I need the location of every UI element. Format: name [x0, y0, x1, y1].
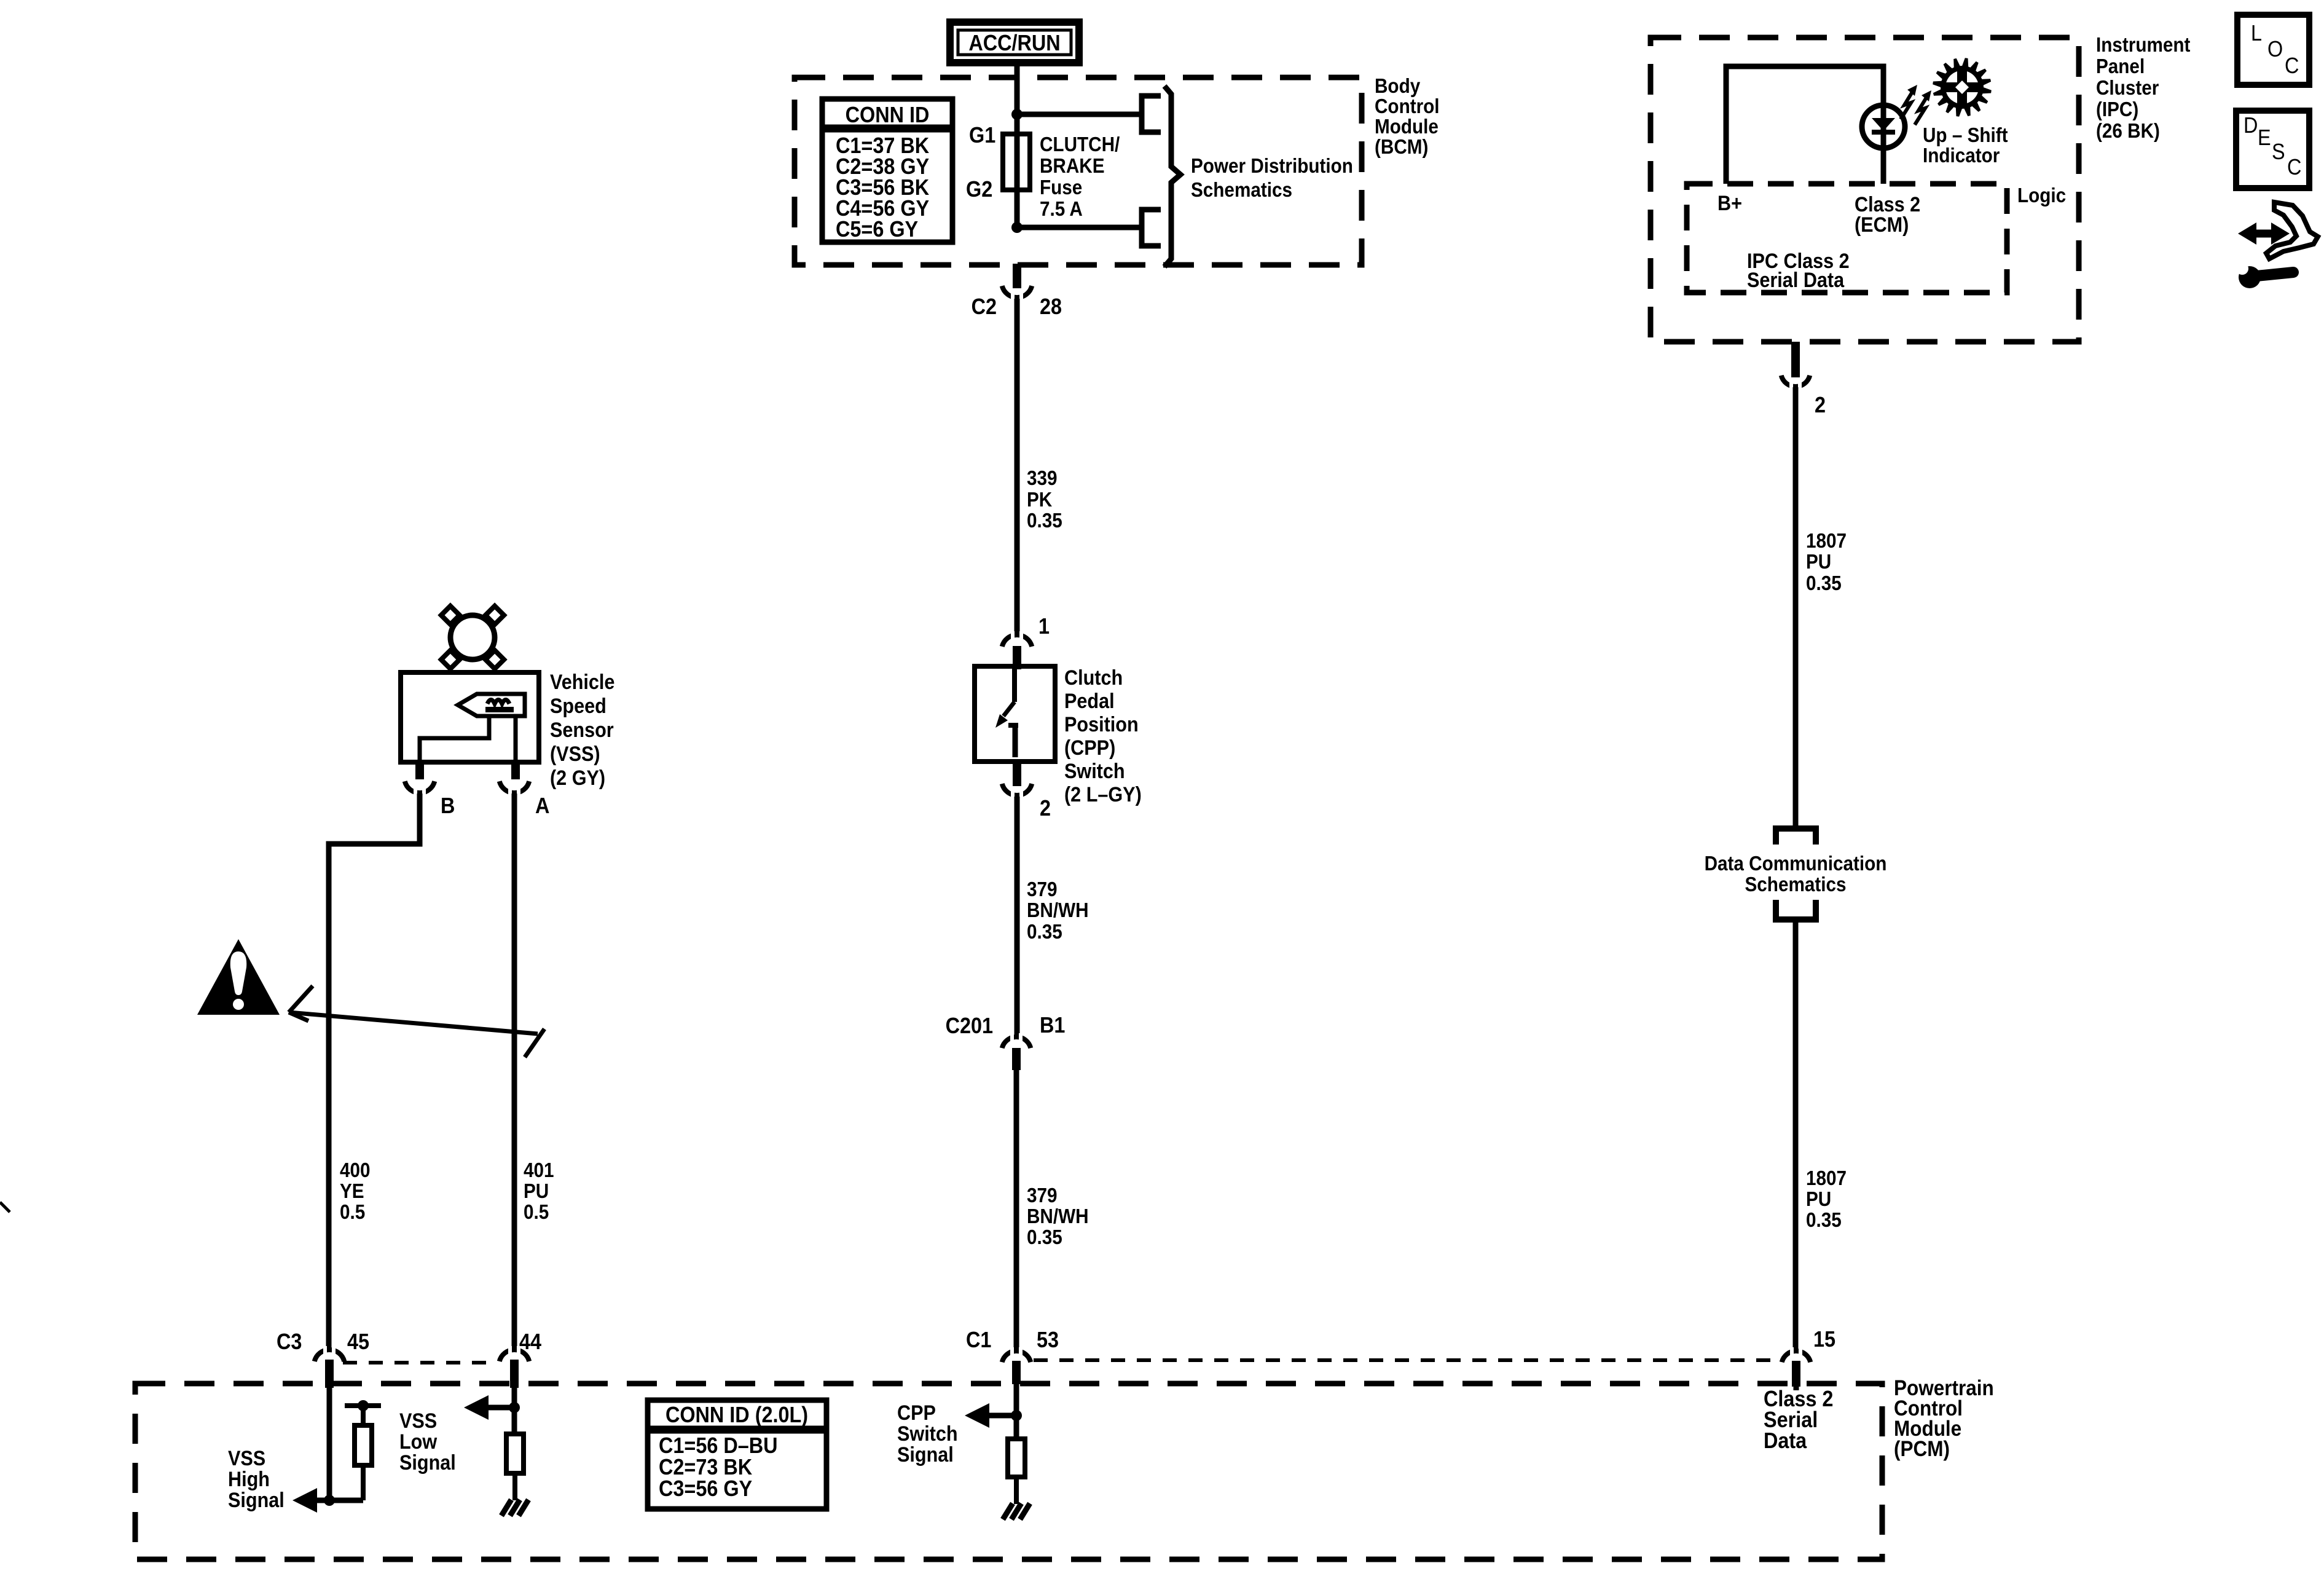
svg-text:Serial Data: Serial Data: [1747, 269, 1845, 292]
svg-text:PU: PU: [1806, 551, 1831, 573]
tools icon: wrench: [2256, 272, 2293, 276]
resistor R1: [355, 1425, 372, 1465]
svg-text:339: 339: [1027, 467, 1058, 490]
svg-text:YE: YE: [340, 1180, 364, 1203]
svg-text:Signal: Signal: [399, 1451, 456, 1475]
svg-text:Body: Body: [1375, 75, 1421, 98]
wire 379 BN/WH upper: [1015, 797, 1020, 1039]
svg-text:C201: C201: [946, 1014, 993, 1038]
IPC Class 2 Serial Data label: [1747, 250, 1850, 292]
logic box (dashed): [1687, 184, 2007, 293]
terminal bracket bottom: [1142, 210, 1161, 246]
LED D1 up-shift indicator: [1862, 105, 1905, 148]
wire label 379 BN/WH 0.35 (upper): [1027, 878, 1089, 943]
PCM label: [1894, 1377, 1994, 1462]
LED light arrows: [1901, 85, 1931, 125]
resistor R2: [506, 1434, 524, 1473]
connector C1 pin 53 (PCM): [966, 1328, 1059, 1384]
svg-text:Sensor: Sensor: [550, 719, 614, 742]
connector pin 2 (IPC): [1781, 342, 1826, 417]
svg-text:ACC/RUN: ACC/RUN: [968, 31, 1060, 55]
wire bottom rail to power distribution: [1017, 225, 1142, 230]
svg-text:CONN ID: CONN ID: [846, 103, 930, 127]
wire label 401 PU 0.5: [524, 1159, 554, 1224]
callout arrow crossing wires: [289, 986, 544, 1057]
svg-text:C5=6 GY: C5=6 GY: [836, 217, 918, 242]
warning triangle: [197, 939, 280, 1015]
svg-text:Schematics: Schematics: [1745, 873, 1847, 896]
CONN ID table (BCM): [822, 99, 952, 242]
resistor R3: [1008, 1439, 1025, 1477]
svg-text:High: High: [228, 1468, 270, 1491]
svg-text:O: O: [2267, 37, 2283, 61]
ground (VSS low): [501, 1500, 511, 1516]
svg-text:B: B: [441, 793, 455, 818]
svg-text:C: C: [2287, 155, 2301, 179]
margin tick: [0, 1202, 10, 1212]
svg-text:VSS: VSS: [399, 1409, 437, 1433]
svg-text:44: 44: [519, 1329, 541, 1354]
svg-text:Pedal: Pedal: [1064, 690, 1115, 713]
svg-text:0.5: 0.5: [524, 1201, 549, 1224]
IPC label: [2096, 34, 2191, 143]
PCM internal: VSS low signal: [399, 1386, 528, 1516]
svg-text:Clutch: Clutch: [1064, 666, 1123, 690]
svg-text:B1: B1: [1040, 1013, 1065, 1038]
svg-text:(2 L–GY): (2 L–GY): [1064, 783, 1142, 806]
svg-text:(ECM): (ECM): [1855, 213, 1909, 237]
svg-text:1807: 1807: [1806, 530, 1847, 553]
wire label 1807 PU 0.35 (lower): [1806, 1167, 1847, 1232]
svg-text:Power Distribution: Power Distribution: [1191, 155, 1353, 178]
svg-text:CLUTCH/: CLUTCH/: [1040, 133, 1120, 156]
svg-text:VSS: VSS: [228, 1447, 265, 1470]
Power Distribution Schematics label: [1191, 155, 1353, 202]
svg-text:(CPP): (CPP): [1064, 736, 1115, 760]
wire 379 BN/WH lower: [1014, 1070, 1019, 1353]
LOC box: [2237, 15, 2309, 85]
svg-text:Schematics: Schematics: [1191, 179, 1292, 202]
svg-text:45: 45: [347, 1329, 369, 1354]
VSS gear icon: [441, 606, 504, 669]
VSS internal wire to pin B: [420, 716, 489, 762]
svg-text:CONN ID (2.0L): CONN ID (2.0L): [665, 1403, 808, 1427]
svg-text:(IPC): (IPC): [2096, 98, 2138, 121]
svg-text:G2: G2: [966, 177, 992, 202]
Up-Shift Indicator label: [1923, 124, 2008, 167]
svg-text:C2=73 BK: C2=73 BK: [659, 1455, 752, 1479]
svg-text:0.35: 0.35: [1027, 921, 1062, 943]
svg-text:C3: C3: [277, 1329, 302, 1354]
wire 1807 PU lower: [1793, 919, 1799, 1353]
svg-text:Signal: Signal: [897, 1443, 954, 1467]
wire label 400 YE 0.5: [340, 1159, 371, 1224]
wire ACC/RUN to BCM fuse node: [1015, 63, 1020, 117]
svg-text:Low: Low: [399, 1430, 438, 1454]
harness dotted link 45-44: [343, 1361, 497, 1364]
svg-text:2: 2: [1040, 796, 1051, 821]
svg-text:C3=56 GY: C3=56 GY: [659, 1476, 752, 1501]
CPP switch label: [1064, 666, 1142, 806]
connector C2 pin 28 (BCM): [972, 264, 1062, 319]
wire B+ loop: [1726, 66, 1883, 184]
wire 1807 PU upper: [1793, 387, 1799, 829]
svg-text:28: 28: [1040, 294, 1062, 319]
svg-text:Module: Module: [1375, 116, 1439, 138]
wire label 379 BN/WH 0.35 (lower): [1027, 1184, 1089, 1249]
svg-text:0.35: 0.35: [1027, 1226, 1062, 1249]
svg-text:S: S: [2272, 140, 2285, 164]
svg-text:C: C: [2285, 53, 2299, 78]
svg-text:BN/WH: BN/WH: [1027, 899, 1089, 922]
svg-text:Instrument: Instrument: [2096, 34, 2191, 57]
wire label 339 PK 0.35: [1027, 467, 1062, 532]
svg-text:(PCM): (PCM): [1894, 1438, 1950, 1462]
svg-text:(VSS): (VSS): [550, 742, 600, 766]
fuse value label: [1040, 133, 1120, 221]
svg-text:BN/WH: BN/WH: [1027, 1205, 1089, 1228]
switch S1 Clutch Pedal Position box: [975, 666, 1055, 762]
svg-text:A: A: [535, 793, 549, 818]
VSS sensor arrow symbol: [458, 694, 525, 716]
svg-text:Vehicle: Vehicle: [550, 671, 614, 694]
svg-text:Panel: Panel: [2096, 55, 2145, 78]
svg-text:15: 15: [1813, 1327, 1835, 1352]
connector pin 2 (CPP switch): [1002, 762, 1051, 821]
svg-text:B+: B+: [1717, 192, 1742, 215]
wire 339 PK: [1015, 299, 1020, 637]
brace to Power Distribution Schematics: [1164, 86, 1180, 267]
svg-text:L: L: [2251, 21, 2262, 45]
svg-text:Fuse: Fuse: [1040, 176, 1082, 199]
wire top rail to power distribution: [1017, 112, 1142, 117]
wire 401 PU (A to PCM 44): [512, 793, 517, 1352]
harness dotted link 53-15: [1034, 1358, 1781, 1362]
gear icon: [1933, 58, 1992, 117]
ground (CPP): [1003, 1503, 1013, 1519]
connector pin 44 (PCM): [500, 1329, 541, 1388]
tools icon: outline pointer: [2266, 202, 2318, 259]
module box BCM (dashed): [795, 77, 1362, 265]
wire: fuse vertical: [1015, 114, 1020, 227]
svg-text:C1=56 D–BU: C1=56 D–BU: [659, 1433, 778, 1458]
svg-text:BRAKE: BRAKE: [1040, 155, 1105, 178]
off-page ref Data Communication Schematics: [1705, 829, 1887, 919]
svg-text:379: 379: [1027, 878, 1058, 901]
crown glyph: [487, 700, 509, 704]
svg-text:1: 1: [1038, 614, 1050, 639]
svg-text:D: D: [2244, 113, 2258, 138]
connector pin 1 (CPP switch): [1002, 614, 1050, 669]
BCM label: [1375, 75, 1440, 159]
svg-text:Switch: Switch: [1064, 760, 1125, 783]
PCM internal: VSS high signal: [228, 1386, 381, 1513]
svg-text:Position: Position: [1064, 713, 1139, 736]
svg-text:(2 GY): (2 GY): [550, 766, 605, 790]
Class 2 Serial Data label (PCM): [1764, 1387, 1833, 1453]
svg-text:53: 53: [1037, 1328, 1059, 1352]
svg-text:400: 400: [340, 1159, 371, 1182]
DESC box: [2236, 111, 2309, 188]
svg-text:PU: PU: [1806, 1188, 1831, 1211]
Class 2 (ECM) label: [1855, 193, 1920, 237]
svg-text:Speed: Speed: [550, 695, 607, 718]
svg-text:(26 BK): (26 BK): [2096, 120, 2160, 143]
svg-text:Data Communication: Data Communication: [1705, 853, 1887, 875]
svg-text:1807: 1807: [1806, 1167, 1847, 1190]
sensor B1 Vehicle Speed Sensor box: [401, 672, 539, 762]
connector C3 pin 45 (PCM): [277, 1329, 369, 1388]
CONN ID (2.0L) table: [648, 1400, 826, 1509]
connector C201 pin B1: [946, 1013, 1066, 1070]
svg-text:Data: Data: [1764, 1428, 1807, 1453]
svg-text:PK: PK: [1027, 489, 1053, 511]
svg-text:0.35: 0.35: [1806, 572, 1842, 595]
svg-text:0.5: 0.5: [340, 1201, 365, 1224]
svg-text:G1: G1: [969, 123, 995, 148]
node G2 junction: [1011, 222, 1023, 233]
svg-text:E: E: [2258, 125, 2271, 150]
terminal bracket top: [1142, 96, 1161, 132]
PCM internal: CPP switch signal: [897, 1384, 1030, 1519]
VSS label: [550, 671, 614, 790]
VSS internal wire to pin A: [514, 716, 518, 762]
connector pin 15 (PCM): [1782, 1327, 1835, 1387]
svg-text:0.35: 0.35: [1027, 510, 1062, 532]
power feed box ACC/RUN: [950, 22, 1079, 63]
svg-text:401: 401: [524, 1159, 554, 1182]
svg-text:Signal: Signal: [228, 1489, 285, 1512]
svg-text:PU: PU: [524, 1180, 549, 1203]
svg-text:CPP: CPP: [897, 1401, 936, 1425]
connector pin B (VSS): [405, 762, 455, 818]
wire 400 YE (B to PCM 45): [329, 793, 420, 1352]
node G1 junction: [1011, 109, 1023, 120]
connector pin A (VSS): [500, 762, 550, 818]
svg-text:Switch: Switch: [897, 1422, 958, 1446]
svg-text:Control: Control: [1375, 95, 1440, 118]
svg-text:7.5 A: 7.5 A: [1040, 198, 1083, 221]
svg-text:0.35: 0.35: [1806, 1209, 1842, 1232]
svg-text:Logic: Logic: [2017, 184, 2066, 207]
svg-text:379: 379: [1027, 1184, 1058, 1207]
module box IPC (dashed): [1651, 37, 2079, 342]
svg-text:2: 2: [1815, 393, 1826, 417]
svg-text:Indicator: Indicator: [1923, 144, 2000, 167]
PCM internal: class 2 serial data stub: [1794, 1384, 1799, 1390]
tools icon: double arrow: [2233, 202, 2318, 288]
svg-text:(BCM): (BCM): [1375, 136, 1428, 159]
switch lever: [995, 666, 1018, 757]
svg-text:C2: C2: [972, 294, 997, 319]
svg-text:Cluster: Cluster: [2096, 77, 2159, 100]
module box PCM (dashed): [135, 1384, 1882, 1559]
fuse F1 CLUTCH/BRAKE 7.5A: [1003, 134, 1030, 190]
svg-text:Up – Shift: Up – Shift: [1923, 124, 2008, 147]
svg-text:C1: C1: [966, 1328, 991, 1352]
wire label 1807 PU 0.35 (upper): [1806, 530, 1847, 595]
